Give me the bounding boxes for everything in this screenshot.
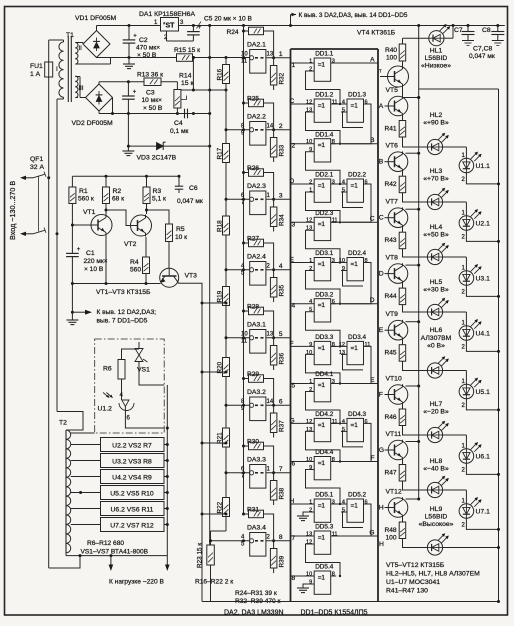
opto LED U7.1 — [443, 489, 467, 491]
svg-text:L56BID: L56BID — [425, 514, 448, 521]
feedback hook wire — [306, 431, 341, 461]
wire R14 top to divider — [181, 89, 226, 91]
resistor R18 — [223, 216, 230, 235]
svg-text:3: 3 — [292, 221, 296, 228]
svg-text:5: 5 — [279, 331, 283, 338]
wire col2 output — [342, 184, 371, 222]
svg-text:DD5.2: DD5.2 — [348, 492, 367, 499]
feedback hook wire — [306, 470, 341, 505]
svg-text:× 10 В: × 10 В — [84, 266, 104, 273]
svg-text:4: 4 — [342, 179, 345, 185]
svg-text:560: 560 — [130, 267, 141, 274]
emitter feed wire row 5 — [403, 426, 428, 436]
svg-text:C8: C8 — [482, 27, 491, 34]
svg-text:HL1: HL1 — [430, 48, 443, 55]
svg-text:DA3.2: DA3.2 — [247, 389, 266, 396]
svg-text:DA2.1: DA2.1 — [247, 42, 266, 49]
svg-text:VS1–VS7 ВТА41-800В: VS1–VS7 ВТА41-800В — [81, 549, 149, 556]
wire col2 output — [342, 104, 371, 144]
svg-text:4: 4 — [279, 263, 283, 270]
resistor R33 — [270, 138, 277, 158]
svg-text:1: 1 — [309, 379, 312, 385]
svg-text:I: I — [56, 66, 58, 73]
svg-text:VT5: VT5 — [386, 87, 399, 94]
svg-text:G: G — [379, 447, 384, 454]
LED HL8 — [427, 482, 442, 497]
svg-text:=1: =1 — [318, 460, 326, 467]
svg-text:H: H — [379, 505, 384, 512]
resistor R19 — [223, 287, 230, 306]
svg-text:VT10: VT10 — [386, 376, 402, 383]
svg-text:U1.1: U1.1 — [476, 163, 491, 170]
svg-text:5,1 к: 5,1 к — [152, 196, 166, 203]
svg-text:=1: =1 — [318, 575, 326, 582]
svg-text:R45: R45 — [385, 350, 397, 357]
svg-text:U6.2 VS6 R11: U6.2 VS6 R11 — [111, 507, 154, 514]
load output arrows — [110, 556, 112, 566]
svg-text:100: 100 — [386, 55, 397, 62]
LED HL3 — [427, 194, 442, 209]
svg-text:9: 9 — [309, 147, 312, 153]
svg-text:C7: C7 — [454, 27, 463, 34]
svg-text:R19: R19 — [217, 290, 224, 302]
svg-text:10: 10 — [241, 332, 248, 338]
svg-text:DA3.1: DA3.1 — [247, 322, 266, 329]
HL9 to return bus — [443, 547, 499, 549]
svg-text:4: 4 — [342, 419, 345, 425]
svg-text:R40: R40 — [385, 47, 397, 54]
svg-text:VT9: VT9 — [386, 311, 399, 318]
resistor R5 10k — [147, 210, 170, 224]
svg-text:1: 1 — [309, 187, 312, 193]
svg-text:Вход ~130...270 В: Вход ~130...270 В — [8, 181, 17, 240]
svg-text:C: C — [379, 215, 384, 222]
opto LED U5.1 — [443, 370, 467, 372]
svg-text:DD2.4: DD2.4 — [348, 250, 367, 257]
output wire to node E — [331, 383, 378, 385]
svg-text:F: F — [370, 455, 374, 462]
svg-text:К выв. 3 DA2,DA3, выв. 14 DD1–: К выв. 3 DA2,DA3, выв. 14 DD1–DD5 — [299, 12, 408, 19]
svg-text:R4: R4 — [130, 259, 139, 266]
svg-text:10 мк×: 10 мк× — [142, 97, 163, 104]
svg-text:1: 1 — [309, 258, 312, 264]
svg-text:D: D — [379, 271, 384, 278]
svg-text:DD1–DD5 К1554ЛП5: DD1–DD5 К1554ЛП5 — [301, 610, 368, 617]
svg-text:+: + — [198, 25, 202, 31]
rail x243.5 — [243, 26, 245, 515]
collector wire VT9 — [406, 321, 419, 323]
links measure line to chain — [202, 302, 226, 304]
dash-dot module box U1.2 VS1 R6 — [95, 339, 165, 433]
svg-text:VT1: VT1 — [83, 209, 96, 216]
DA output net 4 — [272, 268, 275, 271]
arrow to DA2 DA3 DD1-DD5 supply — [290, 15, 292, 26]
svg-text:560 к: 560 к — [78, 196, 94, 203]
feedback hook wire — [306, 312, 341, 347]
feedback hook wire — [306, 271, 341, 304]
capacitor C2 470uF — [128, 26, 130, 40]
logic block border right — [377, 49, 379, 602]
svg-text:10 к: 10 к — [175, 234, 187, 241]
emitter feed wire row 3 — [403, 305, 428, 312]
opto return bus — [419, 88, 499, 90]
output wire to node F — [331, 461, 378, 463]
resistor R35 — [270, 278, 277, 298]
svg-text:C3: C3 — [146, 90, 155, 97]
rail x209.7 — [209, 26, 211, 546]
svg-text:ST: ST — [166, 23, 176, 30]
svg-text:HL3: HL3 — [430, 168, 443, 175]
svg-text:R23 15 к: R23 15 к — [197, 543, 204, 568]
svg-text:DD4.4: DD4.4 — [315, 449, 334, 456]
svg-text:2: 2 — [309, 507, 312, 513]
emitter rail y283.5 — [72, 283, 160, 285]
wire input right — [56, 99, 58, 234]
svg-text:HL6: HL6 — [430, 327, 443, 334]
svg-text:VT8: VT8 — [386, 255, 399, 262]
VT4 emitter to bus — [403, 88, 419, 98]
svg-text:A: A — [379, 103, 384, 110]
wire minus rail y113.5 — [99, 113, 210, 115]
svg-text:H: H — [290, 498, 295, 505]
capacitor C8 — [497, 26, 499, 32]
zener VD3 2S147V — [127, 114, 129, 147]
resistor R39 — [270, 549, 277, 569]
resistor R37 — [270, 413, 277, 433]
svg-text:0,047 мк: 0,047 мк — [177, 198, 203, 205]
svg-text:«−20 В»: «−20 В» — [423, 409, 449, 416]
svg-text:68 к: 68 к — [112, 196, 124, 203]
svg-text:C6: C6 — [189, 185, 198, 192]
svg-text:4: 4 — [309, 299, 312, 305]
opto LED U6.1 — [443, 434, 467, 436]
svg-text:R24–R31 39 к: R24–R31 39 к — [235, 590, 277, 597]
svg-text:R16–R22 2 к: R16–R22 2 к — [195, 579, 233, 586]
svg-text:=1: =1 — [351, 422, 359, 429]
feedback hook wire — [306, 192, 341, 222]
svg-text:R15 15 к: R15 15 к — [174, 47, 200, 54]
svg-text:C7,C8: C7,C8 — [473, 46, 492, 53]
ground at gate input — [303, 584, 308, 588]
svg-text:6: 6 — [365, 419, 368, 425]
svg-text:HL5: HL5 — [430, 279, 443, 286]
output wire to node G — [331, 535, 378, 537]
svg-text:B: B — [379, 159, 384, 166]
svg-text:=1: =1 — [318, 302, 326, 309]
svg-text:VT5–VT12 КТ315Б: VT5–VT12 КТ315Б — [386, 562, 445, 569]
svg-text:2: 2 — [309, 66, 312, 72]
svg-text:1: 1 — [309, 499, 312, 505]
svg-text:32 А: 32 А — [30, 164, 44, 171]
svg-text:L56BID: L56BID — [425, 55, 448, 62]
svg-text:G: G — [290, 418, 295, 425]
resistor R32 — [270, 66, 277, 86]
ground under C2 — [128, 58, 130, 65]
svg-text:1: 1 — [279, 51, 283, 58]
svg-text:DD4.3: DD4.3 — [348, 411, 367, 418]
svg-text:11: 11 — [241, 59, 248, 65]
svg-text:DD3.1: DD3.1 — [315, 250, 334, 257]
collector wire VT12 — [406, 498, 419, 500]
svg-text:G: G — [369, 529, 374, 536]
svg-text:R33: R33 — [279, 144, 286, 156]
svg-text:220 мк×: 220 мк× — [84, 258, 108, 265]
output wire to node B — [331, 143, 378, 145]
capacitor C7 — [467, 26, 469, 32]
svg-text:=1: =1 — [318, 103, 326, 110]
wire col2 output — [342, 346, 371, 383]
svg-text:DA2.4: DA2.4 — [247, 254, 266, 261]
DA output net 2 — [272, 128, 275, 131]
svg-text:=1: =1 — [351, 261, 359, 268]
emitter feed wire row 2 — [403, 249, 428, 257]
svg-text:VD3 2С147В: VD3 2С147В — [137, 155, 177, 162]
svg-text:=1: =1 — [318, 535, 326, 542]
wire common y58 — [97, 57, 177, 59]
svg-text:DD5.1: DD5.1 — [315, 492, 334, 499]
svg-text:R22: R22 — [217, 501, 224, 513]
svg-text:+: + — [133, 90, 137, 96]
svg-text:DD4.2: DD4.2 — [315, 411, 334, 418]
svg-text:=1: =1 — [351, 503, 359, 510]
wire col2 output — [342, 423, 371, 461]
svg-text:Т2: Т2 — [59, 420, 67, 427]
svg-text:R37: R37 — [279, 420, 286, 432]
svg-text:R41: R41 — [385, 126, 397, 133]
svg-text:H: H — [379, 541, 384, 548]
svg-text:U7.2 VS7 R12: U7.2 VS7 R12 — [110, 523, 154, 530]
svg-text:HL2–HL5, HL7, HL8 АЛ307ЕМ: HL2–HL5, HL7, HL8 АЛ307ЕМ — [386, 571, 480, 578]
svg-text:R5: R5 — [176, 226, 185, 233]
svg-text:+: + — [77, 247, 81, 253]
svg-text:6: 6 — [365, 99, 368, 105]
svg-text:DD5.3: DD5.3 — [315, 524, 334, 531]
DA output net 6 — [272, 404, 275, 407]
svg-text:R1: R1 — [79, 188, 88, 195]
feedback hook wire — [306, 392, 341, 424]
LED HL5 — [427, 304, 442, 319]
svg-text:C5 20 мк × 10 В: C5 20 мк × 10 В — [204, 16, 253, 23]
svg-text:4: 4 — [342, 99, 345, 105]
svg-text:К нагрузке ~220 В: К нагрузке ~220 В — [109, 579, 164, 586]
svg-text:=1: =1 — [318, 62, 326, 69]
svg-text:R46: R46 — [385, 414, 397, 421]
svg-text:U7.1: U7.1 — [476, 509, 491, 516]
resistor R23 15k — [210, 531, 212, 545]
svg-text:HL7: HL7 — [430, 401, 443, 408]
svg-text:8: 8 — [332, 139, 335, 145]
svg-text:5: 5 — [309, 307, 312, 313]
svg-text:DD3.4: DD3.4 — [348, 334, 367, 341]
svg-text:DD2.1: DD2.1 — [315, 172, 334, 179]
DA output net 7 — [272, 471, 275, 474]
svg-text:C1: C1 — [86, 250, 95, 257]
LED HL1 — [429, 31, 444, 46]
svg-text:АЛ307ВМ: АЛ307ВМ — [421, 335, 452, 342]
svg-text:VT12: VT12 — [386, 489, 402, 496]
collector wire VT7 — [406, 208, 419, 210]
svg-text:=1: =1 — [318, 183, 326, 190]
svg-text:R32: R32 — [279, 72, 286, 84]
VT3 output wire to bottom rail — [178, 282, 202, 601]
svg-text:0,047 мк: 0,047 мк — [469, 53, 495, 60]
ground VT block — [71, 312, 73, 320]
svg-text:9: 9 — [309, 465, 312, 471]
wire top bias y176 — [72, 175, 179, 177]
opto LED U1.1 — [443, 146, 467, 148]
svg-text:VT1–VT3 КТ315Б: VT1–VT3 КТ315Б — [96, 289, 151, 296]
svg-text:15 к: 15 к — [181, 80, 193, 87]
svg-text:D: D — [290, 178, 295, 185]
svg-text:U4.1: U4.1 — [476, 331, 491, 338]
svg-text:=1: =1 — [318, 503, 326, 510]
svg-text:VT4 КТ361Б: VT4 КТ361Б — [357, 30, 396, 37]
feedback hook wire — [306, 230, 341, 262]
svg-text:DD2.2: DD2.2 — [348, 172, 367, 179]
svg-text:U3.1: U3.1 — [476, 276, 491, 283]
capacitor C3 10uF — [127, 82, 129, 96]
resistor R16 — [223, 65, 230, 84]
opto LED U3.1 — [443, 256, 467, 258]
svg-text:R14: R14 — [179, 73, 192, 80]
svg-text:HL9: HL9 — [430, 506, 443, 513]
svg-text:FU1: FU1 — [30, 63, 43, 70]
svg-text:C2: C2 — [139, 37, 148, 44]
svg-text:R24: R24 — [227, 29, 239, 36]
svg-text:R38: R38 — [279, 487, 286, 499]
svg-text:т: т — [379, 69, 382, 75]
capacitor C1 220uF — [71, 242, 73, 253]
svg-text:DD1.1: DD1.1 — [315, 51, 334, 58]
svg-text:F: F — [290, 341, 294, 348]
LED anode bus — [418, 26, 420, 500]
svg-text:8: 8 — [292, 575, 296, 582]
svg-text:VT6: VT6 — [386, 143, 399, 150]
svg-text:7: 7 — [279, 466, 283, 473]
svg-text:выв. 7 DD1–DD5: выв. 7 DD1–DD5 — [97, 318, 148, 325]
svg-text:R47: R47 — [385, 470, 397, 477]
svg-text:R41–R47 130: R41–R47 130 — [386, 588, 428, 595]
feedback hook wire — [306, 544, 341, 576]
svg-text:«+30 В»: «+30 В» — [423, 287, 449, 294]
resistor R21 — [223, 428, 230, 447]
LED HL2 — [427, 139, 442, 154]
svg-text:U4.2 VS4 R9: U4.2 VS4 R9 — [112, 475, 152, 482]
svg-text:VT11: VT11 — [386, 431, 402, 438]
DA output net 5 — [272, 336, 275, 339]
svg-text:=1: =1 — [318, 345, 326, 352]
svg-text:U6.1: U6.1 — [476, 454, 491, 461]
svg-text:9: 9 — [309, 579, 312, 585]
svg-text:DD4.1: DD4.1 — [315, 371, 334, 378]
ground at gate input — [303, 512, 308, 516]
svg-text:«Низкое»: «Низкое» — [421, 63, 451, 70]
svg-text:3: 3 — [279, 192, 283, 199]
svg-text:2: 2 — [309, 266, 312, 272]
collector wire VT10 — [406, 385, 419, 387]
resistor R34 — [270, 207, 277, 227]
svg-text:2: 2 — [292, 143, 296, 150]
ground under VD3 wire — [127, 146, 129, 151]
svg-text:R42: R42 — [385, 181, 397, 188]
LED HL9 — [427, 540, 442, 555]
svg-text:10: 10 — [241, 52, 248, 58]
svg-text:U5.1: U5.1 — [476, 389, 491, 396]
svg-text:R35: R35 — [279, 284, 286, 296]
triac module blocks U2-U7 — [101, 438, 165, 452]
resistor R22 — [223, 498, 230, 517]
svg-text:× 50 В: × 50 В — [143, 105, 163, 112]
svg-text:III: III — [79, 86, 84, 92]
arrow K vyv 12 DA2 DA3 — [71, 311, 74, 314]
svg-text:1: 1 — [292, 62, 296, 69]
svg-text:DD3.2: DD3.2 — [315, 291, 334, 298]
svg-text:U2.2 VS2 R7: U2.2 VS2 R7 — [112, 443, 152, 450]
svg-text:6: 6 — [279, 398, 283, 405]
T2 taps to modules — [71, 432, 95, 434]
svg-text:=1: =1 — [318, 382, 326, 389]
emitter feed wire row 7 — [403, 539, 428, 548]
svg-text:«+70 В»: «+70 В» — [423, 176, 449, 183]
svg-text:«+50 В»: «+50 В» — [423, 232, 449, 239]
svg-text:QF1: QF1 — [30, 156, 43, 163]
svg-text:2: 2 — [279, 123, 283, 130]
svg-text:+: + — [133, 34, 137, 40]
feedback hook wire — [306, 112, 341, 144]
svg-text:E: E — [290, 257, 295, 264]
svg-text:DA2, DA3 LM339N: DA2, DA3 LM339N — [224, 610, 284, 617]
svg-text:U3.2 VS3 R8: U3.2 VS3 R8 — [112, 459, 152, 466]
svg-text:R3: R3 — [153, 188, 162, 195]
svg-text:DD1.4: DD1.4 — [315, 131, 334, 138]
svg-text:DD5.4: DD5.4 — [315, 564, 334, 571]
svg-text:6: 6 — [365, 499, 368, 505]
bottom rail — [202, 601, 499, 603]
svg-text:9: 9 — [309, 342, 312, 348]
resistor R3 5.1k — [143, 187, 150, 204]
svg-text:=1: =1 — [318, 261, 326, 268]
wire input to T2 top — [57, 412, 83, 431]
svg-text:R43: R43 — [385, 237, 397, 244]
svg-text:8: 8 — [279, 534, 283, 541]
svg-text:6: 6 — [292, 461, 296, 468]
svg-text:R44: R44 — [385, 293, 397, 300]
svg-text:R17: R17 — [217, 147, 224, 159]
R5 to VT3 base — [168, 242, 170, 269]
svg-text:«+90 В»: «+90 В» — [423, 120, 449, 127]
top +V rail — [97, 25, 162, 27]
svg-text:HL8: HL8 — [430, 458, 443, 465]
svg-text:8: 8 — [365, 258, 368, 264]
svg-text:К выв. 12 DA2,DA3;: К выв. 12 DA2,DA3; — [97, 309, 157, 316]
svg-text:R16: R16 — [217, 68, 224, 80]
output wire to node A — [331, 62, 378, 64]
emitter feed wire row 4 — [403, 361, 428, 370]
output wire to node D — [331, 303, 378, 305]
feedback hook wire — [306, 354, 341, 383]
collector wire VT8 — [406, 264, 419, 266]
svg-text:U5.2 VS5 R10: U5.2 VS5 R10 — [110, 491, 154, 498]
svg-text:U1.2: U1.2 — [98, 406, 113, 413]
logic block border top — [291, 48, 379, 50]
svg-text:C: C — [370, 216, 375, 223]
svg-text:DD3.3: DD3.3 — [315, 334, 334, 341]
svg-text:B: B — [370, 137, 375, 144]
resistor R2 68k — [103, 187, 110, 204]
svg-text:R2: R2 — [113, 188, 122, 195]
svg-text:DA2.2: DA2.2 — [247, 114, 266, 121]
svg-text:VD2 DF005M: VD2 DF005M — [72, 120, 114, 127]
